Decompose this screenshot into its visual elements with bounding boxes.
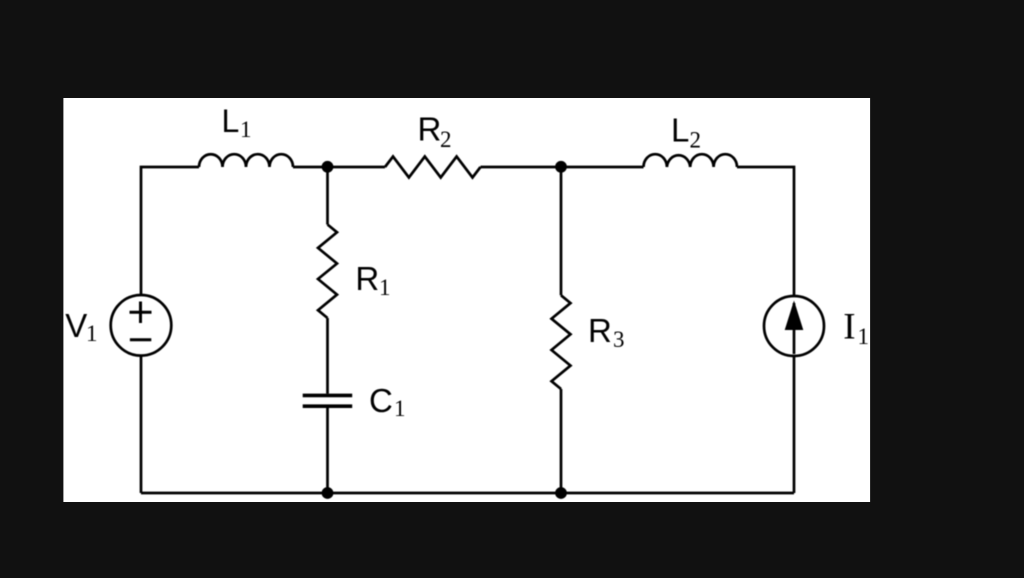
wire node B down bbox=[560, 167, 563, 295]
svg-text:2: 2 bbox=[440, 127, 452, 152]
V1 minus sign bbox=[130, 338, 151, 341]
svg-text:C: C bbox=[369, 382, 393, 419]
V1 plus sign bbox=[130, 302, 152, 324]
svg-text:3: 3 bbox=[613, 327, 625, 352]
wire R1 to C1 bbox=[326, 318, 329, 394]
wire top-left rail bbox=[141, 167, 199, 295]
wire L1 to node A bbox=[293, 166, 385, 169]
node A junction dot bbox=[322, 161, 334, 173]
svg-text:R: R bbox=[418, 111, 442, 148]
svg-text:V: V bbox=[65, 307, 87, 344]
wire R2 to node B bbox=[481, 166, 644, 169]
voltage source V1 bbox=[111, 295, 172, 356]
svg-text:I: I bbox=[843, 307, 855, 348]
svg-text:2: 2 bbox=[690, 128, 702, 153]
wire node A down bbox=[326, 167, 329, 225]
current source I1 bbox=[764, 296, 824, 356]
wire I1 to bottom rail bbox=[793, 356, 796, 493]
bottom node B junction dot bbox=[555, 487, 567, 499]
white canvas bbox=[63, 98, 870, 502]
svg-text:1: 1 bbox=[394, 396, 406, 421]
I1 arrow head bbox=[785, 301, 804, 331]
resistor R3 bbox=[552, 295, 571, 389]
svg-text:1: 1 bbox=[86, 321, 98, 346]
wire V1 to bottom rail bbox=[140, 356, 143, 493]
wire R3 to bottom rail bbox=[560, 389, 563, 493]
capacitor C1 bbox=[303, 395, 353, 406]
svg-text:R: R bbox=[588, 312, 612, 349]
svg-text:L: L bbox=[671, 112, 689, 149]
wire top-right rail bbox=[737, 167, 794, 296]
wire C1 to bottom rail bbox=[326, 408, 329, 493]
svg-text:R: R bbox=[355, 260, 379, 297]
svg-text:L: L bbox=[222, 103, 240, 139]
svg-text:1: 1 bbox=[240, 117, 252, 142]
bottom node A junction dot bbox=[322, 487, 334, 499]
I1 arrow shaft bbox=[793, 303, 796, 354]
inductor L1 bbox=[199, 154, 293, 167]
inductor L2 bbox=[644, 154, 738, 167]
svg-text:1: 1 bbox=[858, 324, 870, 349]
node B junction dot bbox=[555, 161, 567, 173]
resistor R2 bbox=[385, 157, 481, 178]
svg-text:1: 1 bbox=[379, 275, 391, 300]
resistor R1 bbox=[318, 225, 337, 319]
bottom rail wire bbox=[141, 492, 794, 495]
